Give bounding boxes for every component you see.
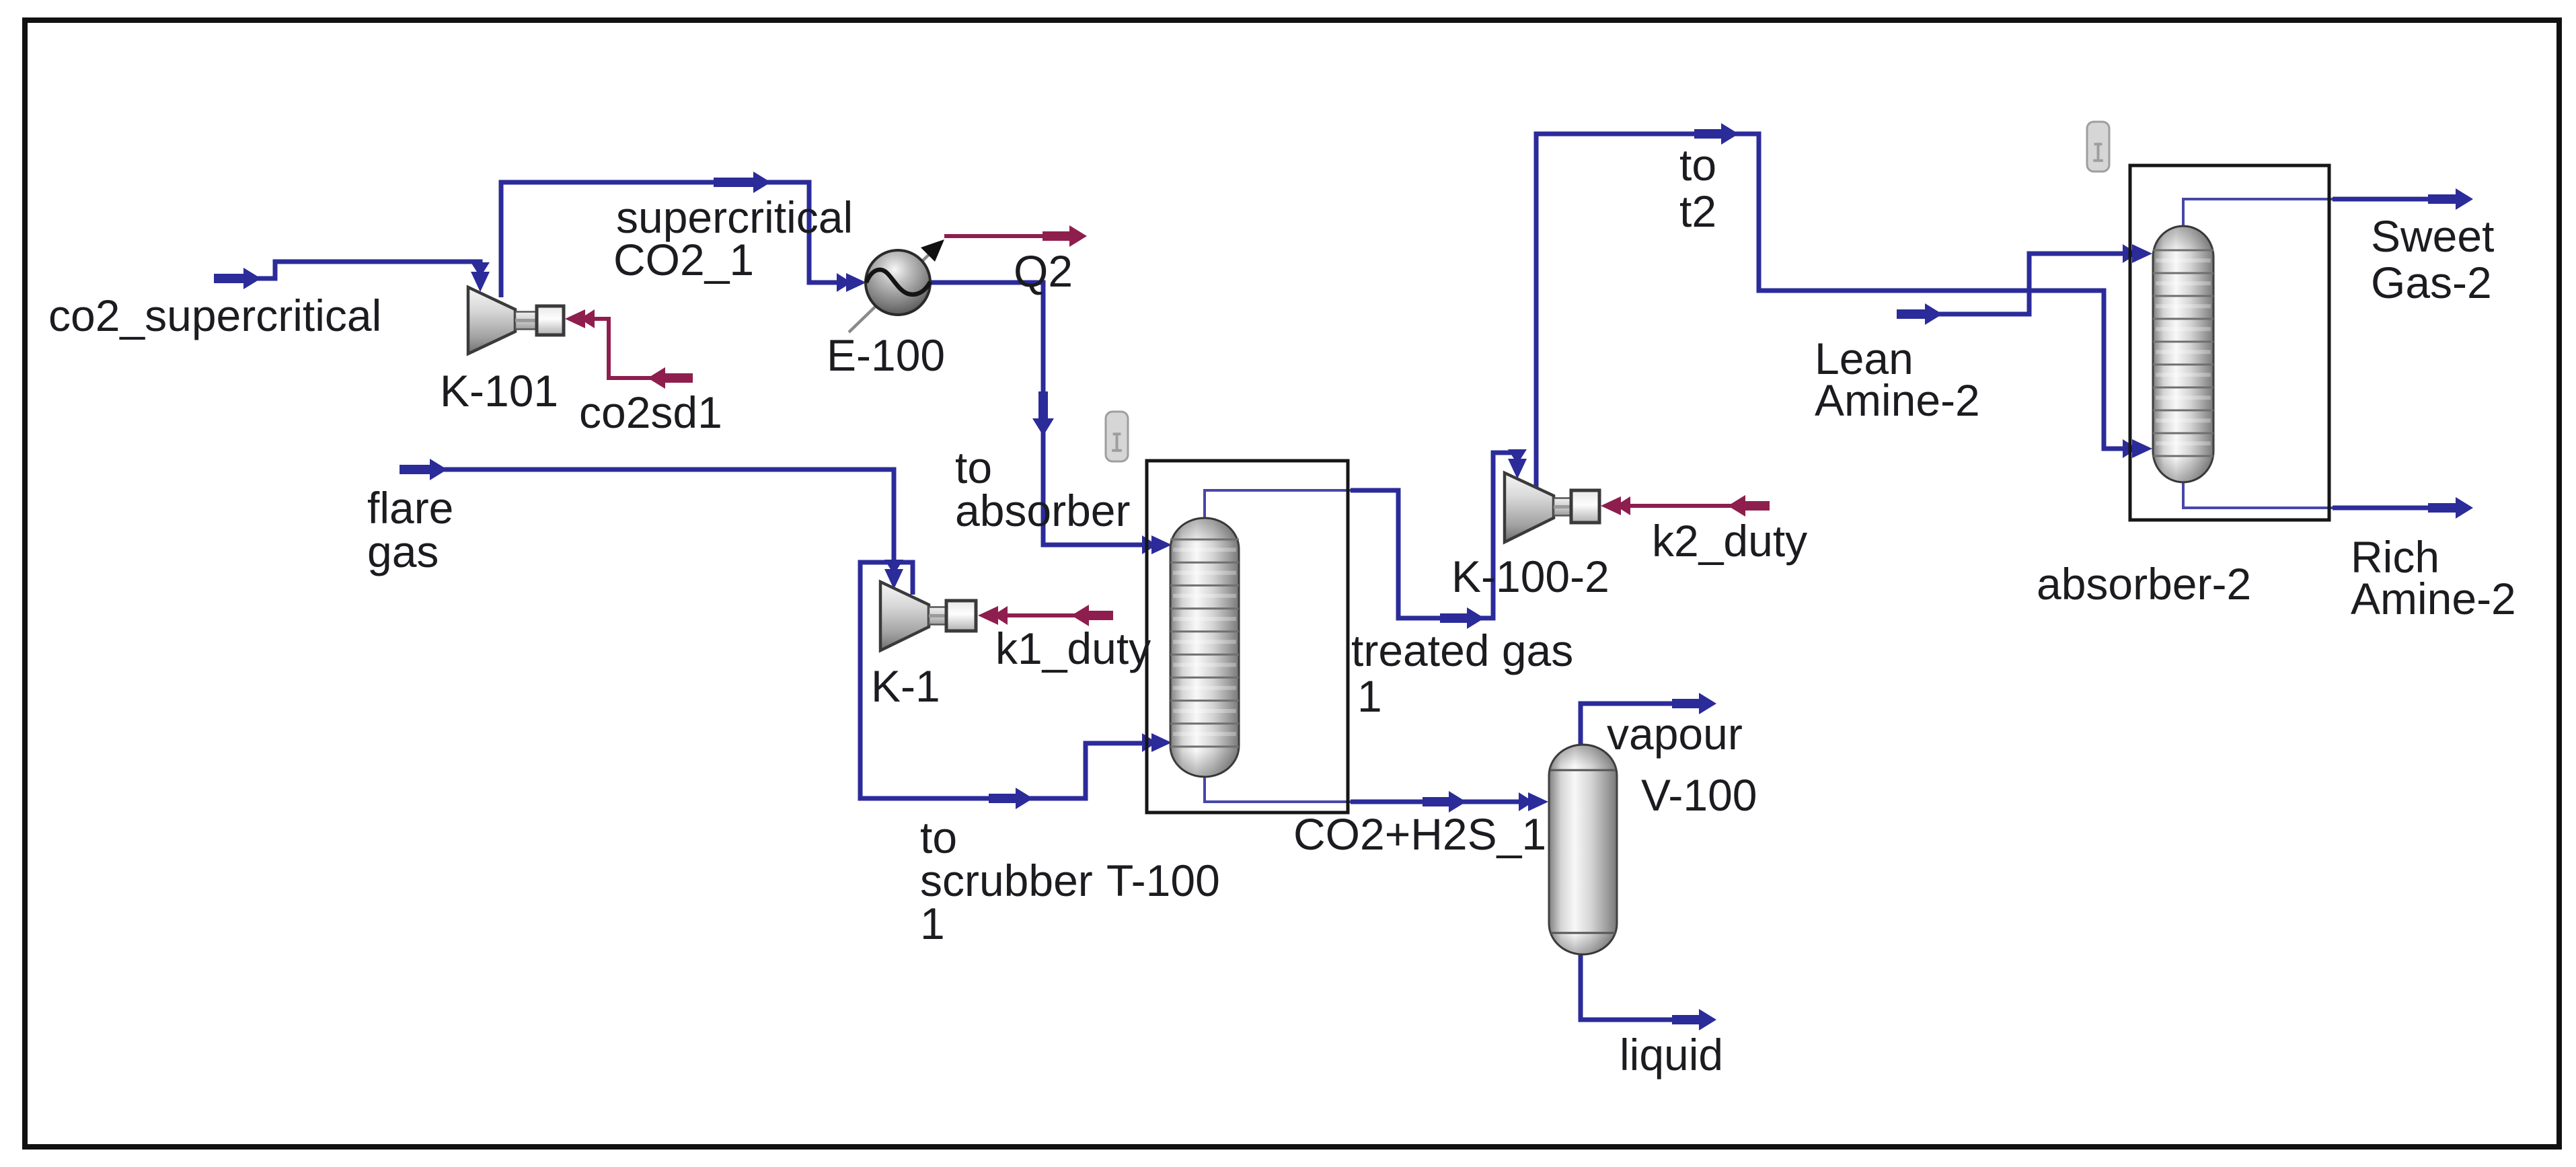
svg-text:scrubber: scrubber — [920, 856, 1093, 905]
svg-text:to: to — [955, 443, 992, 492]
svg-text:CO2_1: CO2_1 — [613, 235, 754, 285]
svg-text:E-100: E-100 — [827, 330, 945, 380]
svg-text:liquid: liquid — [1620, 1030, 1723, 1080]
svg-text:co2sd1: co2sd1 — [579, 387, 722, 437]
svg-text:vapour: vapour — [1607, 709, 1743, 759]
svg-text:V-100: V-100 — [1641, 770, 1757, 820]
svg-text:t2: t2 — [1679, 186, 1716, 236]
svg-text:k1_duty: k1_duty — [995, 624, 1151, 673]
svg-text:T-100: T-100 — [1106, 856, 1220, 905]
svg-text:treated gas: treated gas — [1351, 626, 1573, 675]
svg-text:K-101: K-101 — [440, 366, 558, 416]
svg-text:Sweet: Sweet — [2371, 211, 2494, 261]
svg-text:Q2: Q2 — [1014, 246, 1073, 296]
svg-text:K-1: K-1 — [871, 661, 940, 711]
svg-text:k2_duty: k2_duty — [1652, 516, 1807, 566]
svg-text:1: 1 — [920, 899, 945, 948]
svg-text:gas: gas — [367, 527, 439, 576]
svg-text:absorber-2: absorber-2 — [2037, 559, 2251, 609]
svg-text:to: to — [920, 813, 957, 862]
svg-text:Gas-2: Gas-2 — [2371, 258, 2492, 307]
svg-text:Amine-2: Amine-2 — [1815, 375, 1980, 425]
svg-text:K-100-2: K-100-2 — [1451, 552, 1609, 601]
svg-text:CO2+H2S_1: CO2+H2S_1 — [1293, 809, 1546, 859]
svg-text:to: to — [1679, 140, 1716, 190]
svg-text:1: 1 — [1357, 671, 1382, 721]
svg-text:absorber: absorber — [955, 486, 1131, 535]
svg-text:Amine-2: Amine-2 — [2351, 574, 2516, 624]
svg-text:co2_supercritical: co2_supercritical — [48, 291, 381, 340]
svg-text:flare: flare — [367, 483, 453, 533]
